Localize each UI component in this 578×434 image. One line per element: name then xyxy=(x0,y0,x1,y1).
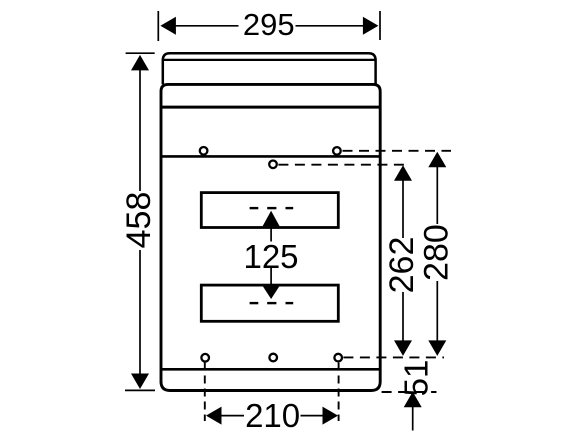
svg-text:210: 210 xyxy=(245,397,300,434)
svg-text:295: 295 xyxy=(243,7,295,42)
svg-text:262: 262 xyxy=(383,237,421,294)
svg-text:458: 458 xyxy=(120,192,158,249)
svg-text:280: 280 xyxy=(418,224,456,281)
svg-text:51: 51 xyxy=(397,360,434,397)
svg-text:125: 125 xyxy=(243,238,298,275)
